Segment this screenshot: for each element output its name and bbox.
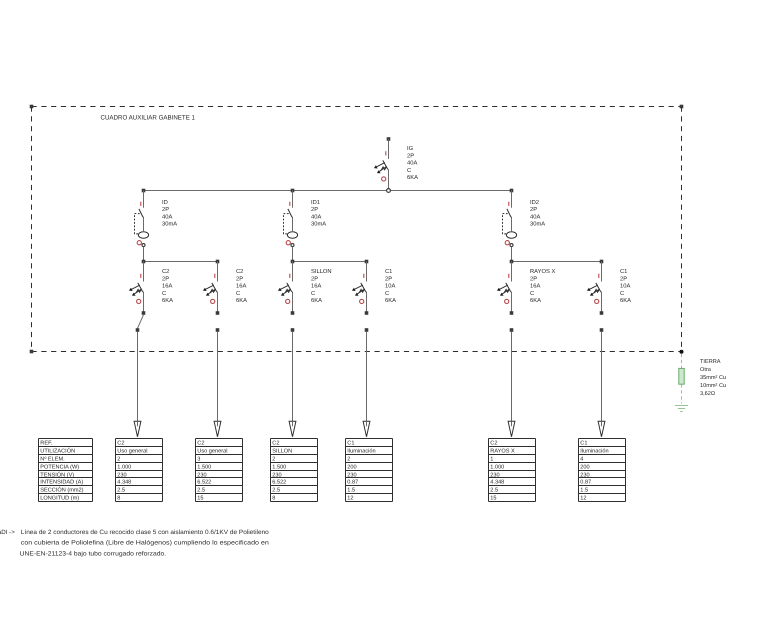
svg-text:Uso general: Uso general [117, 447, 147, 454]
svg-text:2.5: 2.5 [490, 487, 498, 493]
load arrow of SILLON [289, 421, 296, 437]
load arrow of RAYOS X [508, 421, 515, 437]
svg-text:LONGITUD (m): LONGITUD (m) [40, 494, 79, 501]
label TIERRA values [700, 359, 726, 397]
svg-text:2.5: 2.5 [272, 487, 280, 493]
svg-text:C2: C2 [490, 440, 497, 446]
svg-text:1: 1 [490, 456, 493, 462]
svg-text:2P: 2P [236, 275, 243, 282]
circuit breaker C1 [587, 262, 602, 314]
svg-text:UNE-EN-21123-4 bajo tubo corru: UNE-EN-21123-4 bajo tubo corrugado refor… [20, 551, 167, 558]
svg-text:C1: C1 [385, 268, 392, 275]
svg-text:2: 2 [117, 456, 120, 462]
svg-text:ID1: ID1 [311, 200, 320, 206]
table row headers [39, 439, 93, 502]
wire: sub bus under RCD [510, 260, 604, 264]
terminal squares and outgoing wire of SILLON [291, 311, 295, 424]
load arrow of C1 [598, 421, 605, 437]
label C1 values [620, 268, 631, 304]
svg-text:40A: 40A [162, 213, 172, 220]
svg-text:C: C [311, 290, 315, 297]
table circuit C1 Iluminación [579, 439, 626, 502]
svg-text:C2: C2 [117, 440, 124, 446]
svg-text:230: 230 [197, 472, 206, 478]
circuit breaker SILLON [278, 262, 293, 314]
svg-text:200: 200 [347, 464, 356, 470]
terminal squares and outgoing wire of C2 [136, 311, 146, 424]
svg-text:10mm² Cu: 10mm² Cu [700, 383, 726, 389]
label C2 values [236, 268, 247, 304]
svg-text:4.348: 4.348 [490, 479, 504, 485]
svg-text:230: 230 [117, 472, 126, 478]
svg-text:230: 230 [490, 472, 499, 478]
load arrow of C2 [134, 421, 141, 437]
wire: sub bus under RCD [142, 260, 220, 264]
svg-text:16A: 16A [530, 283, 540, 290]
svg-text:40A: 40A [530, 213, 540, 220]
svg-text:SECCIÓN (mm2): SECCIÓN (mm2) [40, 486, 83, 493]
wire: sub bus under RCD [291, 260, 369, 264]
svg-text:2P: 2P [385, 275, 392, 282]
svg-text:RAYOS X: RAYOS X [490, 448, 515, 454]
table circuit C2 Uso general [116, 439, 163, 502]
svg-text:C2: C2 [197, 440, 204, 446]
svg-text:2: 2 [347, 456, 350, 462]
svg-text:10A: 10A [385, 283, 395, 290]
svg-text:6KA: 6KA [530, 297, 541, 304]
svg-text:16A: 16A [162, 283, 172, 290]
label SILLON values [311, 268, 332, 304]
svg-text:C2: C2 [162, 268, 169, 275]
ground symbol [675, 406, 688, 412]
svg-text:Uso general: Uso general [197, 447, 227, 454]
svg-text:C: C [407, 167, 411, 174]
svg-text:ID: ID [162, 200, 168, 206]
svg-text:IG: IG [407, 145, 414, 152]
terminal squares and outgoing wire of C1 [365, 311, 369, 424]
svg-text:CUADRO AUXILIAR GABINETE 1: CUADRO AUXILIAR GABINETE 1 [101, 114, 196, 121]
svg-text:1.5: 1.5 [347, 487, 355, 493]
svg-text:4: 4 [580, 456, 583, 462]
svg-text:15: 15 [197, 495, 203, 501]
svg-text:Línea de 2 conductores de Cu r: Línea de 2 conductores de Cu recocido cl… [21, 529, 270, 536]
svg-text:230: 230 [580, 472, 589, 478]
label C1 values [385, 268, 396, 304]
svg-text:2P: 2P [530, 206, 537, 213]
svg-text:2P: 2P [620, 275, 627, 282]
svg-text:16A: 16A [311, 283, 321, 290]
svg-text:230: 230 [347, 472, 356, 478]
svg-text:30mA: 30mA [311, 221, 326, 228]
svg-text:RAYOS X: RAYOS X [530, 268, 555, 275]
load arrow of C2 [214, 421, 221, 437]
wire: earth conductor (green dashed) [681, 354, 683, 404]
circuit breaker RAYOS X [497, 262, 512, 314]
svg-text:2.5: 2.5 [117, 487, 125, 493]
svg-text:6KA: 6KA [385, 297, 396, 304]
svg-text:6KA: 6KA [620, 297, 631, 304]
RCD differential ID1 2P 40A 30mA [284, 189, 298, 261]
svg-text:1.000: 1.000 [490, 464, 504, 470]
svg-text:6KA: 6KA [407, 174, 418, 181]
terminal squares and outgoing wire of RAYOS X [510, 311, 514, 424]
table circuit C1 Iluminación [346, 439, 393, 502]
node: junction dot to earth [680, 350, 684, 354]
svg-text:1.000: 1.000 [117, 464, 131, 470]
svg-text:6.522: 6.522 [272, 479, 286, 485]
svg-text:ID2: ID2 [530, 199, 539, 206]
svg-text:3,62Ω: 3,62Ω [700, 391, 715, 397]
wire: main distribution bus [144, 190, 512, 192]
svg-text:UTILIZACIÓN: UTILIZACIÓN [40, 447, 75, 454]
svg-text:10A: 10A [620, 283, 630, 290]
svg-text:C1: C1 [620, 268, 627, 275]
svg-text:40A: 40A [311, 213, 321, 220]
svg-text:C: C [530, 290, 534, 297]
svg-text:C: C [385, 290, 389, 297]
table circuit C2 Uso general [196, 439, 243, 502]
label ID1 values [311, 200, 326, 228]
svg-text:6KA: 6KA [162, 297, 173, 304]
svg-text:INTENSIDAD (A): INTENSIDAD (A) [40, 478, 83, 485]
svg-text:2P: 2P [407, 152, 414, 159]
svg-text:16A: 16A [236, 283, 246, 290]
svg-text:30mA: 30mA [162, 221, 177, 228]
table circuit C2 RAYOS X [489, 439, 536, 502]
label RAYOS X values [530, 268, 555, 304]
load arrow of C1 [363, 421, 370, 437]
svg-text:230: 230 [272, 472, 281, 478]
svg-text:2: 2 [272, 456, 275, 462]
svg-text:0.87: 0.87 [580, 479, 591, 485]
svg-text:con cubierta de Poliolefina (L: con cubierta de Poliolefina (Libre de Ha… [21, 540, 270, 547]
svg-text:2P: 2P [530, 275, 537, 282]
svg-text:C2: C2 [236, 268, 243, 275]
svg-text:1.500: 1.500 [197, 464, 211, 470]
svg-text:Otra: Otra [700, 367, 712, 373]
svg-text:SILLON: SILLON [272, 448, 292, 454]
circuit breaker C2 [203, 262, 218, 314]
svg-text:2P: 2P [162, 275, 169, 282]
svg-text:Iluminación: Iluminación [347, 447, 375, 454]
svg-text:35mm² Cu: 35mm² Cu [700, 375, 726, 381]
svg-text:8: 8 [272, 495, 275, 501]
svg-text:C: C [620, 290, 624, 297]
svg-text:C2: C2 [272, 440, 279, 446]
svg-text:REF.: REF. [40, 440, 53, 446]
RCD differential ID2 2P 40A 30mA [503, 189, 517, 261]
svg-text:8: 8 [117, 495, 120, 501]
svg-text:15: 15 [490, 495, 496, 501]
svg-text:12: 12 [580, 495, 586, 501]
svg-text:C1: C1 [580, 440, 587, 446]
svg-text:C: C [162, 290, 166, 297]
svg-text:4.348: 4.348 [117, 479, 131, 485]
svg-text:C1: C1 [347, 440, 354, 446]
svg-text:0.87: 0.87 [347, 479, 358, 485]
label ID values [162, 200, 177, 228]
svg-text:30mA: 30mA [530, 221, 545, 228]
main breaker IG 2P 40A [374, 137, 391, 192]
RCD differential ID 2P 40A 30mA [135, 189, 149, 261]
label C2 values [162, 268, 173, 304]
svg-text:6KA: 6KA [311, 297, 322, 304]
svg-text:40A: 40A [407, 160, 417, 167]
svg-text:C: C [236, 290, 240, 297]
svg-text:Nº ELEM.: Nº ELEM. [40, 456, 65, 462]
svg-text:1.5: 1.5 [580, 487, 588, 493]
svg-text:12: 12 [347, 495, 353, 501]
svg-text:TIERRA: TIERRA [700, 359, 721, 365]
svg-text:Iluminación: Iluminación [580, 447, 608, 454]
terminal squares and outgoing wire of C2 [216, 311, 220, 424]
earth electrode (green) [679, 368, 684, 384]
svg-text:6KA: 6KA [236, 297, 247, 304]
svg-text:2.5: 2.5 [197, 487, 205, 493]
table circuit C2 SILLON [271, 439, 318, 502]
svg-text:2P: 2P [311, 206, 318, 213]
svg-text:1.500: 1.500 [272, 464, 286, 470]
terminal squares and outgoing wire of C1 [600, 311, 604, 424]
svg-text:POTENCIA (W): POTENCIA (W) [40, 463, 79, 470]
svg-text:200: 200 [580, 464, 589, 470]
circuit breaker C1 [352, 262, 367, 314]
dashed enclosure border of cabinet [30, 105, 684, 354]
svg-text:6.522: 6.522 [197, 479, 211, 485]
label IG values [407, 145, 418, 181]
circuit breaker C2 [129, 262, 144, 314]
svg-text:2P: 2P [311, 275, 318, 282]
svg-text:SILLON: SILLON [311, 268, 332, 275]
svg-text:3: 3 [197, 456, 200, 462]
svg-text:2P: 2P [162, 206, 169, 213]
svg-text:aDI ->: aDI -> [0, 529, 15, 536]
svg-text:TENSIÓN (V): TENSIÓN (V) [40, 471, 74, 478]
label ID2 values [530, 199, 545, 228]
